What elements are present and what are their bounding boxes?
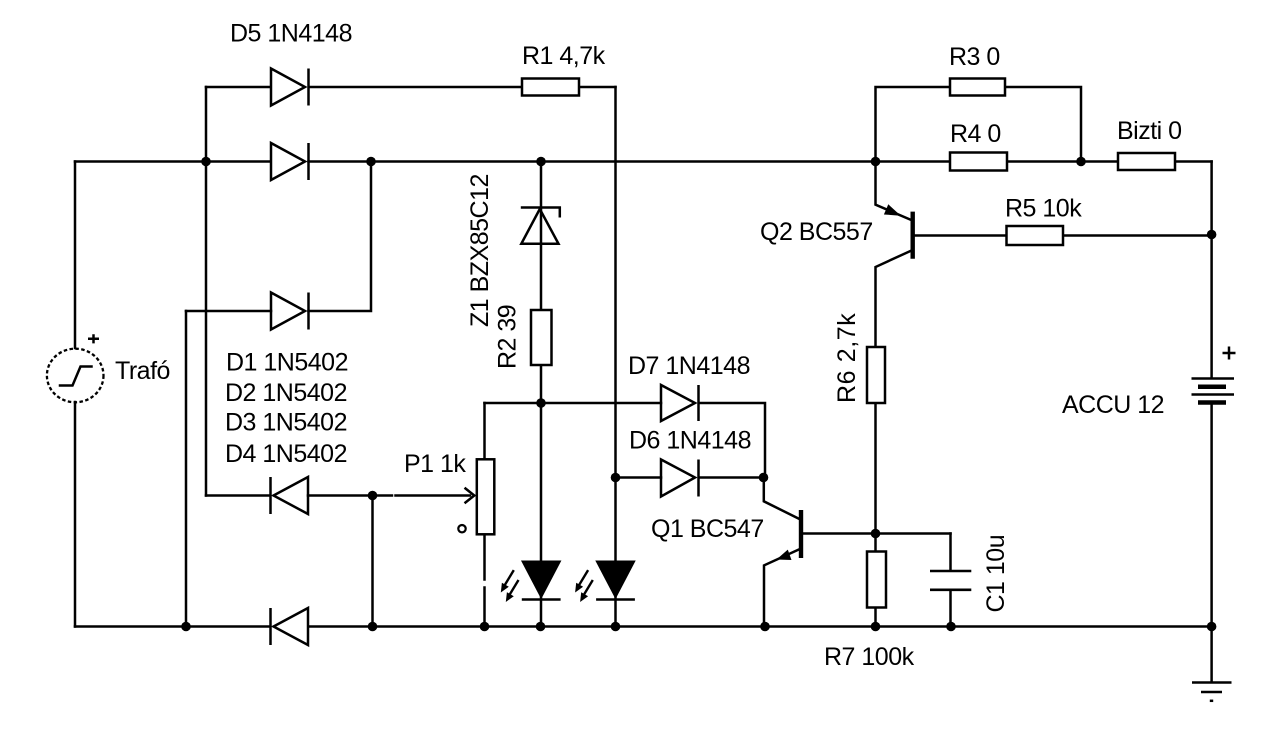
svg-text:Trafó: Trafó [115,357,170,385]
svg-text:R2 39: R2 39 [494,305,522,369]
svg-text:R5 10k: R5 10k [1005,195,1082,223]
svg-text:Bizti 0: Bizti 0 [1117,117,1182,145]
svg-text:R3 0: R3 0 [949,43,1000,71]
svg-text:Q2 BC557: Q2 BC557 [760,218,873,246]
svg-text:D3 1N5402: D3 1N5402 [225,409,347,437]
svg-text:ACCU 12: ACCU 12 [1062,391,1164,419]
svg-text:P1 1k: P1 1k [404,450,466,478]
svg-text:R7 100k: R7 100k [824,643,915,671]
svg-text:D7 1N4148: D7 1N4148 [628,352,750,380]
svg-text:D5 1N4148: D5 1N4148 [230,20,352,48]
svg-text:Z1 BZX85C12: Z1 BZX85C12 [466,174,494,327]
svg-text:R6 2,7k: R6 2,7k [833,313,861,403]
svg-text:D2 1N5402: D2 1N5402 [225,379,347,407]
svg-text:D6 1N4148: D6 1N4148 [629,427,751,455]
svg-text:D1 1N5402: D1 1N5402 [226,349,348,377]
svg-text:Q1 BC547: Q1 BC547 [651,515,764,543]
svg-text:D4 1N5402: D4 1N5402 [225,440,347,468]
svg-text:R1 4,7k: R1 4,7k [522,42,606,70]
svg-text:R4 0: R4 0 [950,120,1001,148]
svg-text:C1 10u: C1 10u [982,535,1010,613]
